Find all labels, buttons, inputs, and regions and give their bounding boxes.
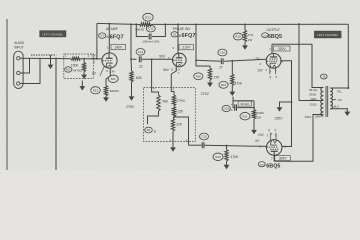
svg-text:C16: C16 [220,51,226,55]
svg-text:1: 1 [65,53,67,57]
svg-text:375V: 375V [201,92,210,96]
cathode stubs X Y [269,68,271,75]
svg-text:330V: 330V [305,115,312,119]
svg-text:PHASE INV: PHASE INV [173,27,191,31]
tube designator V1 B 6FQ7 [171,32,178,37]
pin 6 wire [173,116,175,118]
svg-text:6BQ5: 6BQ5 [266,164,280,170]
svg-text:.27: .27 [218,66,223,70]
svg-text:47Ω: 47Ω [248,33,254,37]
wire secondary bottom BLK to ground [330,108,348,110]
capacitor C14 .22 coupling [136,49,145,56]
svg-text:100mmf 10%: 100mmf 10% [142,40,159,44]
svg-text:150K: 150K [71,63,80,67]
resistor R21 130 ohm cathode [240,112,250,120]
resistor R11 82K [130,58,132,60]
svg-text:+: + [231,103,233,107]
resistor R16 27K to 375V [196,60,210,68]
svg-text:10V: 10V [258,133,265,137]
svg-text:275V: 275V [125,105,135,109]
svg-text:M1: M1 [66,68,70,72]
tube designator V1 A 6FQ7 [99,33,106,38]
svg-text:C16: C16 [224,107,230,111]
wire coupling from V1A plate [131,24,137,59]
transformer secondary winding [330,88,332,109]
wire R16 to 375V arrow [209,80,211,83]
svg-text:210Ω: 210Ω [310,102,318,106]
svg-text:6FQ7: 6FQ7 [110,35,124,41]
wire feedback drop to secondary [347,24,349,88]
svg-text:AUDIO: AUDIO [14,41,25,45]
wire middle terminal tie [20,58,30,73]
pentode V17 output [266,53,281,68]
resistor 2700 ohm [171,88,174,95]
svg-text:27K: 27K [214,76,221,80]
pentode V18 output lower [266,140,282,156]
wire V1B cathode to module pin 5 [171,66,176,87]
transformer primary winding [321,88,324,117]
svg-text:T5: T5 [322,75,326,79]
svg-text:BLK: BLK [334,105,340,109]
pin 7 plate 326V lower [273,155,275,161]
svg-text:R11: R11 [111,77,116,81]
svg-text:56K: 56K [163,99,170,103]
wire top rail middle [152,23,349,25]
capacitor C10 100mmf parallel [136,24,148,36]
triode V1A [102,53,117,68]
transformer T5 designator [321,74,328,79]
wire input hot lead [20,57,64,59]
module label M1 B [145,127,153,133]
svg-text:82K: 82K [136,76,143,80]
svg-text:130Ω: 130Ω [256,111,264,115]
wire screen 295V branch [291,101,293,103]
svg-text:V1: V1 [101,34,105,38]
resistor 56K [152,88,159,95]
svg-text:V1: V1 [173,32,177,36]
svg-text:50V: 50V [159,54,166,58]
triode V1B phase inverter [173,53,187,67]
svg-text:30mfd: 30mfd [241,102,250,106]
ground cathode R13 [105,96,107,98]
svg-text:INPUT: INPUT [14,46,24,50]
svg-text:22K: 22K [178,110,185,114]
svg-text:230Ω: 230Ω [309,92,317,96]
resistor 150K [71,57,81,60]
svg-text:RED: RED [311,97,317,101]
wire after 150K [64,58,71,60]
svg-text:320V: 320V [278,47,287,51]
svg-text:7: 7 [168,56,170,60]
svg-text:R19: R19 [221,83,227,87]
svg-text:3: 3 [170,138,172,142]
resistor R19 470K grid leak upper [231,60,233,62]
ground R20 [226,161,228,165]
svg-text:326V: 326V [279,156,288,160]
svg-text:66V: 66V [163,68,170,72]
ground module divider [172,131,174,148]
svg-text:.22: .22 [138,64,143,68]
svg-text:7: 7 [269,47,271,51]
svg-text:8200Ω: 8200Ω [110,89,120,93]
wire V18 plate to transformer primary bottom [274,115,323,162]
wire V1A plate riser [108,24,110,54]
svg-text:2: 2 [88,53,90,57]
svg-text:C14: C14 [138,50,144,54]
svg-text:YEL: YEL [337,90,343,94]
svg-text:1W: 1W [256,116,261,120]
wire shield bus drop to bottom [55,59,57,171]
wire plate node drop [195,24,197,60]
svg-text:2: 2 [93,60,95,64]
svg-text:LEFT CHANNEL: LEFT CHANNEL [317,33,338,37]
module label M1 A [65,67,72,72]
capacitor 30mfd cathode bypass [222,105,230,111]
svg-text:4: 4 [153,86,155,90]
svg-text:C15: C15 [201,135,207,139]
ground shield drain [50,55,52,65]
ground R19 [231,86,233,93]
svg-text:LEFT CHANNEL: LEFT CHANNEL [42,32,63,36]
tube designator V18 6BQ5 [258,162,265,167]
svg-text:5: 5 [173,86,175,90]
svg-text:470K: 470K [235,82,243,86]
svg-text:R13: R13 [93,88,99,92]
ground secondary [346,109,348,112]
svg-text:B: B [154,129,156,133]
svg-text:22K: 22K [176,123,183,127]
wire lower terminal tie [20,59,40,84]
wire top rail [97,23,140,24]
wire secondary top YEL [330,87,348,89]
svg-text:OUTPUT: OUTPUT [266,28,280,32]
svg-text:6: 6 [186,138,188,142]
ground stub below module [81,81,83,87]
wire V17 plate to transformer primary top [272,44,323,87]
wire to V1A grid [91,58,102,60]
svg-text:6FQ7: 6FQ7 [182,33,196,39]
wire primary center RED to B+ [299,100,323,102]
wire R11 to 275V [131,82,133,97]
capacitor C15 coupling lower [200,133,209,140]
svg-text:470Ω: 470Ω [75,69,83,73]
svg-text:470K: 470K [231,155,240,159]
svg-text:140V: 140V [114,45,123,49]
transformer core [325,86,327,117]
left border line [6,19,8,170]
svg-text:R12: R12 [145,15,151,19]
shielded cable braid [31,54,56,56]
arrow 47 ohm down [244,42,246,46]
svg-text:R20: R20 [215,155,221,159]
capacitor C16 coupling upper [218,49,227,56]
svg-text:M1: M1 [147,128,151,132]
resistor 47 ohm 2W screen [244,24,246,26]
ground inside module [83,72,85,76]
wire center tap riser [298,24,300,101]
svg-text:C10: C10 [148,27,153,31]
svg-text:10V: 10V [257,69,264,73]
svg-text:R16: R16 [196,74,202,78]
resistor 22K [173,105,175,108]
label LEFT CHANNEL (right) [315,31,342,38]
svg-text:1: 1 [107,46,109,50]
ground cathode network [253,119,255,131]
resistor R12 5600 ohm [143,13,153,21]
wire V1A grid feedback riser [96,23,98,58]
svg-text:2W: 2W [248,38,253,42]
svg-text:R21: R21 [242,114,248,118]
svg-text:295V: 295V [274,116,284,120]
wire V1B plate riser [177,24,179,53]
wire 50V node to module pin 4 [151,59,153,61]
svg-text:6: 6 [173,46,175,50]
svg-text:Y: Y [178,71,180,75]
svg-text:2700Ω: 2700Ω [177,99,186,103]
svg-text:7: 7 [271,157,273,161]
resistor R20 470K grid leak lower [226,145,228,147]
svg-text:R18: R18 [235,35,241,39]
resistor 22K lower [173,117,174,119]
resistor R13 8200 ohm cathode [91,87,101,94]
wire to V1B grid [142,58,173,60]
wire V1A cathode [106,67,110,85]
svg-text:BRN: BRN [316,115,322,119]
pin 7 plate 320V [271,44,273,53]
svg-text:210V: 210V [182,46,191,50]
svg-text:6BQ5: 6BQ5 [268,34,282,40]
svg-text:AF AMP: AF AMP [106,27,119,31]
resistor 470 ohm shunt [83,59,85,63]
label LEFT CHANNEL (left) [40,31,66,37]
tube designator V17 6BQ5 [262,33,269,38]
heater pin X [101,66,105,74]
module M1 section B dashed enclosure [144,88,196,142]
module M1 section A dashed enclosure [64,54,94,79]
